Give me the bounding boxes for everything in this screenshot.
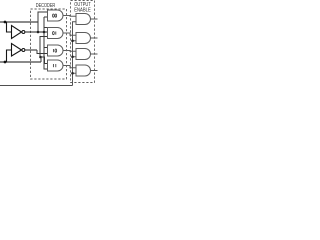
and gate 01 [48, 28, 64, 39]
wire enable line [0, 85, 73, 87]
inverter 1 [12, 26, 22, 39]
wire decoder out 2 to OE gate 3 [63, 50, 76, 53]
wire decoder out 1 to OE gate 2 [63, 33, 76, 35]
wire A to inverter 1 [7, 22, 12, 32]
label 11 [52, 64, 54, 67]
and gate OE2 [76, 33, 91, 44]
node rail1-A' [37, 31, 40, 34]
wire input B [0, 61, 41, 63]
inverter 2 [12, 44, 22, 57]
and gate OE1 [76, 14, 91, 25]
wire enable stub gate3 [73, 56, 77, 58]
wire enable rail [73, 22, 77, 86]
wire B to inverter 2 [7, 50, 12, 62]
wire OE out 1 [91, 18, 98, 20]
node A junction [4, 21, 7, 24]
svg-text:ENABLE: ENABLE [74, 8, 91, 14]
wire enable stub gate4 [73, 72, 77, 74]
label 00 [53, 14, 55, 17]
wire B up to gate2 bottom [40, 37, 48, 63]
wire B jog to gate4 top [41, 57, 48, 64]
label 01 [53, 31, 55, 34]
wire A' [25, 31, 47, 33]
and gate 00 [48, 10, 64, 21]
wire OE out 3 [91, 53, 98, 55]
wire input A [0, 21, 38, 23]
node enable-g4 [71, 72, 74, 75]
wire OE out 2 [91, 37, 98, 39]
wire rail to gate1 top [38, 12, 48, 32]
and gate 11 [48, 60, 64, 71]
and gate 10 [48, 45, 64, 56]
wire OE out 4 [91, 70, 98, 72]
and gate OE4 [76, 65, 91, 76]
wire B' to gate3 bottom [37, 50, 48, 54]
wire enable stub gate2 [73, 40, 77, 42]
wire rail A' gate1 bottom to gate4 bottom [44, 17, 48, 69]
svg-text:DECODER: DECODER [36, 3, 56, 9]
node enable-g3 [71, 55, 74, 58]
wire decoder out 0 to OE gate 1 [63, 15, 76, 18]
output enable box (dashed) [71, 1, 95, 83]
and gate OE3 [76, 49, 91, 60]
wire B' [25, 49, 37, 51]
node rail2-A' [43, 31, 46, 34]
node enable-g2 [71, 39, 74, 42]
label 10 [52, 49, 54, 52]
wire decoder out 3 to OE gate 4 [63, 66, 76, 68]
decoder box (dashed) [31, 9, 67, 79]
node B junction [4, 61, 7, 64]
node B-branch [39, 56, 42, 59]
